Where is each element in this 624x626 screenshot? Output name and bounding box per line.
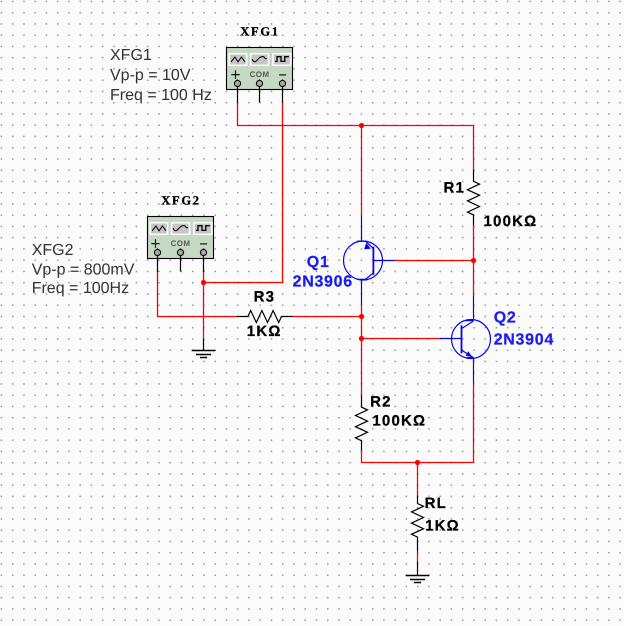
svg-text:COM: COM [171, 239, 191, 248]
junction Q2 base tap node [359, 336, 364, 341]
svg-text:Freq = 100Hz: Freq = 100Hz [32, 280, 129, 297]
svg-text:100KΩ: 100KΩ [372, 412, 426, 429]
transistor Q2 2N3904 (NPN) [440, 296, 491, 384]
svg-text:XFG2: XFG2 [32, 242, 74, 259]
svg-text:XFG1: XFG1 [110, 47, 152, 64]
svg-text:Q1: Q1 [307, 254, 330, 271]
svg-text:COM: COM [250, 70, 270, 79]
XFG2 sine-wave button [172, 223, 190, 235]
XFG1 pin COM [259, 79, 261, 102]
XFG1 terminal minus [279, 80, 285, 86]
XFG2 pin minus [203, 248, 205, 272]
svg-text:XFG2: XFG2 [161, 194, 200, 208]
XFG1 terminal COM [256, 80, 262, 86]
svg-text:100KΩ: 100KΩ [484, 213, 538, 230]
wire R3 right to center node [293, 316, 362, 318]
XFG2 body [148, 217, 214, 259]
svg-text:R1: R1 [444, 179, 466, 196]
XFG1 sine-wave button [251, 54, 269, 66]
svg-text:Q2: Q2 [494, 309, 517, 326]
XFG2 minus sign [200, 243, 207, 245]
junction top rail node [359, 123, 364, 128]
XFG1 body [227, 48, 293, 90]
wire R2 bottom stub [361, 451, 363, 463]
junction R3 / column node [359, 314, 364, 319]
XFG2 pin plus [157, 248, 159, 272]
resistor R1 [468, 170, 480, 225]
XFG1 minus sign [279, 74, 286, 76]
Q2 emitter arrow [466, 351, 473, 357]
ground at RL [406, 561, 430, 582]
junction R1 bottom / Q1 base node [471, 258, 476, 263]
wire center node to Q2 base [362, 338, 441, 340]
Q1 emitter arrow [364, 243, 371, 249]
XFG2 plus sign [151, 239, 159, 248]
wire bottom rail [362, 462, 474, 464]
XFG1 terminal plus [234, 80, 240, 86]
function generator XFG2 [148, 217, 214, 272]
XFG2 terminal minus [200, 249, 206, 255]
wire R1 bottom to Q2 top pin [473, 225, 475, 296]
wire Q1 bottom pin to R2 [361, 305, 363, 396]
svg-text:Freq = 100 Hz: Freq = 100 Hz [110, 87, 212, 104]
svg-text:Vp-p = 10V: Vp-p = 10V [110, 67, 191, 84]
wire Q1 base to R1 node [395, 260, 474, 262]
XFG2 terminal plus [154, 249, 160, 255]
svg-text:2N3906: 2N3906 [293, 273, 353, 290]
resistor R2 [356, 396, 368, 451]
junction bottom rail / RL node [415, 460, 420, 465]
ground at XFG2 net [192, 339, 216, 358]
wire ground net down to ground [203, 271, 205, 339]
XFG2 terminal COM [177, 249, 183, 255]
svg-text:RL: RL [425, 495, 447, 512]
svg-text:XFG1: XFG1 [240, 25, 279, 39]
XFG1 triangle-wave button [229, 54, 246, 66]
svg-text:1KΩ: 1KΩ [425, 517, 460, 534]
wire XFG2 plus to R3 [158, 271, 237, 317]
transistor Q1 2N3906 (PNP) [344, 216, 395, 305]
XFG2 triangle-wave button [150, 223, 167, 235]
svg-text:R3: R3 [254, 289, 276, 306]
resistor R3 [237, 311, 293, 323]
svg-text:2N3904: 2N3904 [494, 332, 554, 349]
wire XFG1 minus down to ground net [204, 103, 283, 283]
wire RL top [417, 463, 419, 496]
svg-text:1KΩ: 1KΩ [247, 323, 282, 340]
wire RL bottom to ground [417, 551, 419, 561]
XFG1 plus sign [231, 70, 239, 79]
wire XFG1 plus to top rail [238, 103, 474, 126]
svg-text:R2: R2 [370, 393, 392, 410]
XFG1 square-wave button [273, 54, 291, 66]
junction ground net node [201, 280, 206, 285]
XFG1 pin plus [237, 79, 239, 103]
wire top rail down to R1 [473, 126, 475, 171]
wire top rail to Q1 top pin [361, 126, 363, 216]
svg-text:Vp-p = 800mV: Vp-p = 800mV [32, 262, 135, 279]
XFG1 pin minus [282, 79, 284, 103]
function generator XFG1 [227, 48, 293, 103]
resistor RL [412, 495, 424, 551]
XFG2 pin COM [180, 248, 182, 271]
wire Q2 bottom pin down [473, 384, 475, 463]
XFG2 square-wave button [194, 223, 212, 235]
